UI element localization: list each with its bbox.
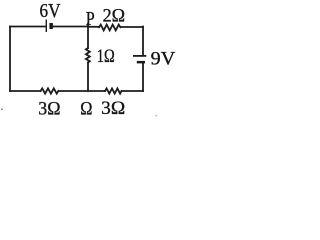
- battery 6V: short thick plate (right, negative): [49, 23, 53, 29]
- svg-text:2Ω: 2Ω: [103, 6, 126, 27]
- wire: top lead from resistor 2ohm to top-right corner: [120, 26, 143, 28]
- wire: top segment from 6V battery to node P: [53, 26, 88, 28]
- svg-text:1Ω: 1Ω: [97, 46, 115, 67]
- svg-text:3Ω: 3Ω: [38, 99, 60, 120]
- wire: left side vertical: [9, 27, 11, 92]
- svg-text:P: P: [86, 9, 95, 30]
- wire: middle branch lower lead (resistor 1ohm down to bottom wire): [87, 63, 89, 92]
- wire: bottom middle segment between the two 3ohm resistors: [58, 90, 105, 92]
- wire: bottom-right segment (resistor to corner): [122, 90, 143, 92]
- svg-text:Ω: Ω: [80, 99, 92, 120]
- resistor 2ohm zigzag on top wire: [99, 25, 120, 31]
- battery 9V: long plate (top, positive): [133, 55, 146, 57]
- resistor 3ohm (bottom left) zigzag: [41, 88, 59, 93]
- resistor 3ohm (bottom right) zigzag: [105, 88, 122, 93]
- scan speck bottom-right: [156, 115, 158, 116]
- wire: top lead from node P to resistor 2ohm: [88, 26, 99, 28]
- battery 6V: long plate (left, positive): [45, 20, 47, 33]
- wire: right side vertical lower (9V battery to bottom corner): [142, 63, 144, 91]
- wire: bottom-left segment (corner to resistor 3ohm): [10, 90, 41, 92]
- resistor 1ohm vertical zigzag: [86, 48, 90, 63]
- scan speck bottom-left: [1, 109, 3, 111]
- node P tick above top wire: [87, 23, 89, 26]
- battery 9V: short thick plate (bottom, negative): [137, 61, 145, 64]
- wire: middle branch upper lead (node P down to resistor 1ohm): [87, 27, 89, 49]
- wire: right side vertical upper (corner to 9V battery): [142, 27, 144, 55]
- svg-text:9V: 9V: [151, 49, 176, 70]
- wire: top-left segment from left corner to 6V battery: [10, 26, 45, 28]
- svg-text:3Ω: 3Ω: [101, 98, 125, 119]
- svg-text:6V: 6V: [40, 1, 61, 22]
